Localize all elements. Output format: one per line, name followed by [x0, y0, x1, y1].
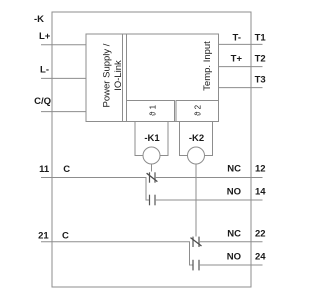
svg-text:T1: T1: [255, 32, 267, 43]
wire L+ terminal to power supply box: [41, 44, 86, 46]
svg-text:-K2: -K2: [189, 133, 204, 144]
svg-text:NO: NO: [227, 252, 241, 263]
svg-text:C/Q: C/Q: [34, 96, 51, 107]
svg-text:11: 11: [39, 164, 50, 175]
sensor channel box theta-1: [127, 101, 175, 122]
svg-text:T+: T+: [231, 53, 243, 64]
svg-text:21: 21: [38, 231, 49, 242]
wire T+ box to terminal T2: [219, 66, 263, 68]
wire common terminal 11 to contact 1: [41, 177, 147, 179]
contact NO group 2 (make contact bars): [192, 260, 194, 271]
wire theta-2 box to coil K2 left side: [180, 122, 188, 156]
wire common terminal 21 to contact 2: [41, 241, 190, 243]
label Temp. Input (rotated): [202, 41, 213, 91]
wire NO contact 2 to terminal 24: [199, 264, 263, 266]
contact NC group 2 actuator slash: [191, 238, 202, 246]
svg-text:Temp. Input: Temp. Input: [202, 41, 213, 91]
wire C/Q terminal to power supply box: [41, 111, 86, 113]
wire theta-1 box to coil K1 left side: [135, 122, 143, 156]
svg-text:T2: T2: [255, 53, 266, 64]
svg-text:NC: NC: [227, 164, 241, 175]
label theta 1 (rotated): [149, 104, 158, 116]
contact NC group 2 (break contact bars): [192, 237, 194, 247]
wire coil K2 to contact group 2: [195, 164, 197, 237]
svg-text:C: C: [63, 164, 70, 175]
wire T- box to terminal T1: [219, 43, 263, 45]
wire common branch down to NO contact group 1: [146, 178, 150, 201]
wire NC contact 2 to terminal 22: [199, 241, 263, 243]
svg-text:T3: T3: [255, 74, 266, 85]
relay coil K2 circle: [188, 147, 205, 164]
label theta 2 (rotated): [194, 104, 203, 116]
svg-text:IO-Link: IO-Link: [113, 60, 124, 91]
svg-text:ϑ 1: ϑ 1: [149, 104, 158, 116]
svg-text:T-: T-: [233, 32, 241, 43]
enclosure frame -K (relay module outline): [52, 12, 251, 287]
svg-text:22: 22: [255, 229, 266, 240]
svg-text:L-: L-: [40, 64, 49, 75]
contact NC group 1 actuator slash: [147, 173, 158, 181]
sensor channel box theta-2: [176, 101, 218, 122]
svg-text:24: 24: [255, 252, 266, 263]
svg-text:Power Supply /: Power Supply /: [102, 43, 113, 107]
svg-text:ϑ 2: ϑ 2: [194, 104, 203, 116]
svg-text:-K: -K: [34, 14, 44, 25]
contact NO group 1 (make contact bars): [149, 195, 151, 206]
wire theta-2 box to coil K2 right side: [205, 122, 213, 156]
svg-text:L+: L+: [39, 31, 51, 42]
wire theta-1 box to coil K1 right side: [160, 122, 168, 156]
wire L- terminal to power supply box: [41, 77, 86, 79]
svg-text:14: 14: [255, 187, 266, 198]
contact NC group 1 (break contact bars): [149, 172, 151, 182]
svg-text:NC: NC: [227, 229, 241, 240]
svg-text:NO: NO: [227, 187, 241, 198]
relay coil K1 circle: [143, 147, 160, 164]
wire box to terminal T3: [219, 87, 263, 89]
block U1 Power Supply / IO-Link + Temp. Input main box: [86, 34, 219, 122]
wire coil K1 to contact group 1: [151, 164, 153, 172]
separator double line inside U1: [122, 34, 124, 122]
svg-text:-K1: -K1: [144, 133, 160, 144]
label Power Supply / IO-Link (rotated): [102, 43, 125, 107]
wire NC contact 1 to terminal 12: [155, 177, 263, 179]
wire common branch down to NO contact group 2: [190, 242, 194, 265]
svg-text:12: 12: [255, 164, 266, 175]
wire NO contact 1 to terminal 14: [155, 199, 263, 201]
svg-text:C: C: [62, 231, 69, 242]
